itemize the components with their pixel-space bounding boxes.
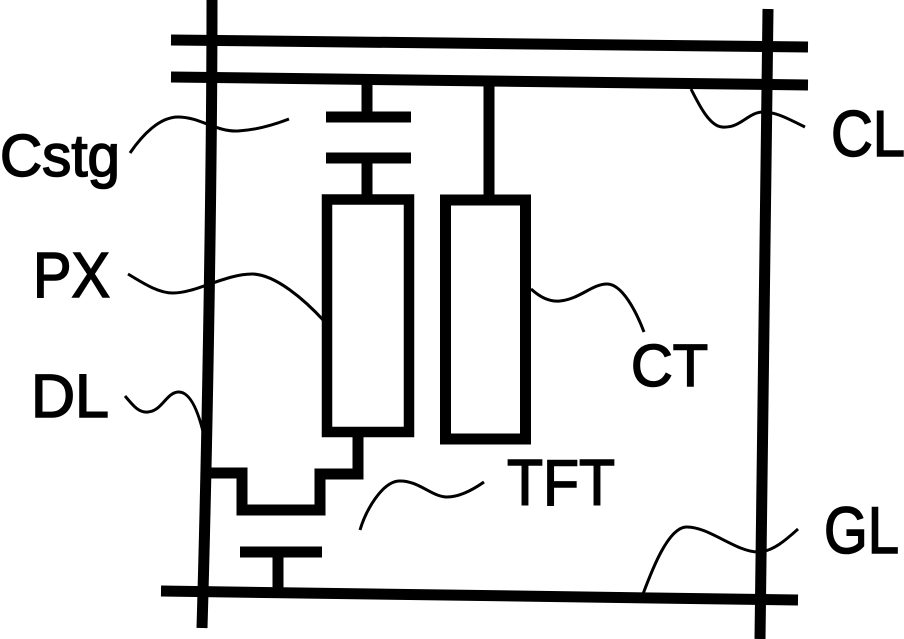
svg-text:GL: GL (824, 493, 899, 567)
leader squiggle for DL (125, 392, 207, 450)
pixel electrode PX rectangle (327, 200, 409, 433)
svg-text:PX: PX (33, 239, 110, 311)
leader squiggle for CL (691, 89, 805, 127)
transistor TFT source-drain path (207, 434, 358, 510)
wire CT connection stem (484, 81, 495, 202)
leader squiggle for CT (531, 284, 644, 332)
wire common line CL upper horizontal (171, 40, 808, 47)
svg-text:DL: DL (31, 362, 109, 430)
svg-text:TFT: TFT (507, 446, 615, 519)
capacitor Cstg (326, 117, 411, 158)
leader squiggle for GL (643, 527, 798, 594)
wire capacitor bottom stem (362, 163, 373, 197)
wire capacitor top stem (362, 80, 373, 114)
wire common line CL lower horizontal (171, 77, 808, 85)
svg-text:Cstg: Cstg (0, 123, 120, 189)
common electrode CT rectangle (446, 200, 526, 439)
leader squiggle for Cstg (130, 117, 289, 153)
leader squiggle for PX (128, 274, 325, 322)
wire right vertical data line (760, 9, 768, 639)
wire data line DL vertical (202, 0, 212, 628)
wire gate line GL horizontal (161, 591, 798, 600)
leader squiggle for TFT (360, 481, 484, 530)
svg-text:CT: CT (631, 333, 708, 399)
transistor TFT gate stem (273, 552, 284, 592)
svg-text:CL: CL (831, 97, 904, 170)
transistor TFT gate bar (240, 547, 322, 558)
